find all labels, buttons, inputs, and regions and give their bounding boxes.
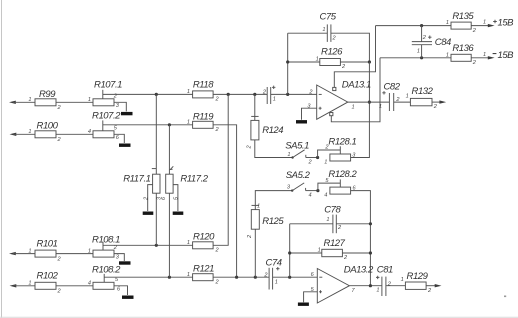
node +15V arrow <box>488 24 495 27</box>
junction SA5.2/R128.2 <box>316 189 319 192</box>
wire C75 to right riser <box>331 33 370 62</box>
ground (R107.1) <box>121 112 133 115</box>
page border left <box>1 0 3 318</box>
node input A arrow <box>9 101 35 104</box>
wire C81 to R129 <box>386 285 406 287</box>
potentiometer R108.2 <box>92 264 121 289</box>
wire DA13.1 pin3 to ground <box>302 108 317 120</box>
node input D arrow <box>10 284 36 287</box>
wire C82 to R132 <box>394 101 411 103</box>
wiper tick R128.2 <box>339 179 341 187</box>
resistor R135 <box>451 11 474 29</box>
svg-text:1: 1 <box>28 97 31 103</box>
junction D'/R125 <box>254 276 257 279</box>
resistor R127 <box>322 238 346 257</box>
wire R117.2 down to net D' <box>168 193 170 277</box>
svg-text:1: 1 <box>324 159 327 165</box>
op-amp DA13.2 <box>317 264 374 303</box>
wire R128.1 wiper tie <box>318 150 341 158</box>
svg-text:R108.1: R108.1 <box>92 235 120 246</box>
resistor R124 <box>251 120 283 139</box>
svg-text:R126: R126 <box>321 46 343 57</box>
wire R117.1 wiper to ground <box>148 185 153 211</box>
ground (R108.1) <box>119 261 131 264</box>
junction C78 right <box>369 222 372 225</box>
wire R136 to -15V arrow <box>471 57 491 59</box>
resistor R118 <box>193 80 215 98</box>
wire net A' down to R117.1 <box>155 94 157 174</box>
node -15V arrow <box>488 56 495 59</box>
svg-text:1: 1 <box>417 48 420 54</box>
svg-text:1: 1 <box>275 280 278 286</box>
wire R120 up to net A' <box>213 94 228 245</box>
capacitor C84 <box>412 26 451 58</box>
wire R126 right <box>340 61 369 63</box>
wire R124 bottom to SA5.1 <box>255 140 293 158</box>
junction output DA13.2 <box>369 284 372 287</box>
svg-text:1: 1 <box>318 248 321 254</box>
capacitor C75 <box>320 12 337 42</box>
junction +15V/C84 <box>420 24 423 27</box>
node input B arrow <box>10 133 36 136</box>
ground (R117.2) <box>173 211 184 214</box>
svg-text:1: 1 <box>322 27 325 33</box>
svg-text:DA13.1: DA13.1 <box>342 80 371 91</box>
svg-text:SA5.2: SA5.2 <box>286 170 311 181</box>
net label +15V <box>493 18 514 29</box>
svg-text:1: 1 <box>273 97 276 103</box>
resistor R136 <box>451 43 474 61</box>
svg-text:R107.2: R107.2 <box>92 111 121 122</box>
wire R99 to R107.1 <box>56 101 93 103</box>
ground (R107.2) <box>119 143 131 146</box>
wire net D' continue to C74 <box>213 276 317 278</box>
ground (DA13.1) <box>296 120 307 123</box>
svg-text:15В: 15В <box>498 50 515 61</box>
junction output DA13.1 <box>368 101 371 104</box>
resistor R119 <box>193 111 215 128</box>
wire -15V rail <box>380 57 451 59</box>
svg-text:C82: C82 <box>384 81 401 92</box>
resistor R125 <box>251 210 284 230</box>
svg-text:1: 1 <box>28 281 31 287</box>
junction A'/R124 <box>253 93 256 96</box>
junction R126 left <box>286 60 289 63</box>
svg-text:DA13.2: DA13.2 <box>344 264 374 275</box>
capacitor C78 <box>324 204 341 233</box>
svg-text:R100: R100 <box>37 120 59 131</box>
op-amp DA13.1 <box>317 80 371 120</box>
svg-text:R128.1: R128.1 <box>328 136 356 147</box>
svg-text:4: 4 <box>88 281 91 287</box>
potentiometer R108.1 <box>92 235 120 258</box>
resistor R126 <box>320 46 343 65</box>
svg-text:R127: R127 <box>324 238 346 249</box>
junction R127 right <box>369 251 372 254</box>
wire net A' (R107.1 wiper to opamp input) <box>103 93 317 95</box>
svg-text:1: 1 <box>406 94 409 100</box>
svg-text:1: 1 <box>187 240 190 246</box>
capacitor C74 <box>266 257 282 289</box>
trimmer R117.2 <box>166 173 209 193</box>
wire R128.1 pin3 up to DA13.1 output <box>351 102 370 157</box>
svg-text:1: 1 <box>316 57 319 63</box>
svg-text:R135: R135 <box>452 11 474 22</box>
wire C78 left <box>290 223 333 225</box>
power pin 4 square of DA13.1 <box>330 113 333 116</box>
svg-text:1: 1 <box>287 152 290 158</box>
svg-text:1: 1 <box>352 105 355 111</box>
capacitor C81 <box>376 265 393 296</box>
wire +15V rail <box>376 25 452 27</box>
svg-text:1: 1 <box>446 20 449 26</box>
svg-text:1: 1 <box>187 89 190 95</box>
wire C75 top left <box>288 32 328 34</box>
wire R124 top connection <box>254 94 256 120</box>
resistor R99 <box>35 89 56 106</box>
wire C78 right <box>336 223 370 225</box>
svg-text:C81: C81 <box>377 265 393 276</box>
wire R128.2 wiper tie <box>318 183 340 191</box>
resistor R120 <box>193 232 216 249</box>
svg-text:4: 4 <box>88 129 91 135</box>
capacitor C73 <box>267 86 275 104</box>
junction R126 right <box>368 60 371 63</box>
page corner speck <box>504 296 506 298</box>
svg-text:1: 1 <box>187 272 190 278</box>
wire R102 to R108.2 <box>56 285 93 287</box>
junction A'/R117.1 <box>155 93 158 96</box>
resistor R132 <box>410 86 433 106</box>
svg-text:R101: R101 <box>37 239 58 250</box>
svg-text:1: 1 <box>401 277 404 283</box>
switch SA5.2 <box>286 170 318 192</box>
ground (DA13.2) <box>298 303 309 306</box>
potentiometer R107.1 <box>93 79 122 106</box>
wire R127 left <box>290 252 322 254</box>
junction C'/R117.1 <box>155 244 158 247</box>
svg-text:R118: R118 <box>193 80 214 91</box>
wire -15V to pin 4 <box>331 58 380 122</box>
wire net B' down to R117.2 <box>168 125 170 174</box>
wire net B' (R107.2 wiper to R119 and down) <box>103 125 237 277</box>
svg-text:1: 1 <box>88 248 91 254</box>
junction D'/R117.2 <box>168 276 171 279</box>
wiper arrow mark R117.2 <box>170 166 173 169</box>
svg-text:R117.2: R117.2 <box>180 173 208 184</box>
wire R108.2 pin6 to ground <box>114 286 128 295</box>
node input C arrow <box>9 252 35 255</box>
wire DA13.2 pin5 to ground <box>304 292 318 302</box>
junction D'/R119 riser <box>235 276 238 279</box>
svg-text:R120: R120 <box>193 232 215 243</box>
resistor R102 <box>35 271 59 290</box>
wire DA13.1 output <box>348 101 390 103</box>
potentiometer R107.2 <box>92 111 121 138</box>
svg-text:1: 1 <box>88 97 91 103</box>
resistor R121 <box>193 263 215 280</box>
svg-text:R125: R125 <box>262 216 284 227</box>
svg-text:1: 1 <box>379 104 382 110</box>
svg-text:R128.2: R128.2 <box>328 169 357 180</box>
wiper mark R117.1 <box>152 168 157 170</box>
junction SA5.1/R128.1 <box>316 156 319 159</box>
svg-text:R136: R136 <box>452 43 474 54</box>
svg-text:C84: C84 <box>435 37 451 48</box>
capacitor C82 <box>382 81 400 111</box>
svg-text:R124: R124 <box>262 125 283 136</box>
trimmer R117.1 <box>123 173 160 193</box>
wire R128.2 pin6 down to DA13.2 output <box>351 191 371 286</box>
wire R107.1 pin3 to ground <box>114 102 126 111</box>
svg-text:1: 1 <box>446 52 449 58</box>
svg-text:1: 1 <box>187 120 190 126</box>
wire SA5.2 left to R125 <box>255 191 292 210</box>
wire R127 right <box>342 252 370 254</box>
svg-text:1: 1 <box>326 217 329 223</box>
svg-text:1: 1 <box>28 248 31 254</box>
svg-text:1: 1 <box>28 129 31 135</box>
trimmer R128.2 <box>328 169 357 194</box>
pin 1 tick of R125 <box>252 204 260 206</box>
wire feedback left riser <box>287 33 289 94</box>
wire R100 to R107.2 <box>56 133 93 135</box>
svg-text:R121: R121 <box>193 263 214 274</box>
svg-text:R117.1: R117.1 <box>123 173 150 184</box>
resistor R100 <box>35 120 59 138</box>
page border bottom <box>0 316 518 318</box>
wire feedback left riser (bottom) <box>289 224 291 277</box>
wire R117.1 down to net C' <box>155 193 157 245</box>
wire R108.1 pin3 to ground <box>114 254 124 261</box>
svg-text:C78: C78 <box>324 204 341 215</box>
svg-text:C75: C75 <box>320 12 337 23</box>
power pin 8 square of DA13.1 <box>333 87 336 90</box>
junction B'/R117.2 <box>168 123 171 126</box>
ground (R117.1) <box>143 211 154 214</box>
wire R101 to R108.1 <box>56 253 93 255</box>
node output 2 arrow <box>426 284 441 287</box>
junction A'/feedback <box>286 93 289 96</box>
svg-text:4: 4 <box>309 193 312 199</box>
wire DA13.2 output <box>349 285 382 287</box>
wire R135 to +15V arrow <box>471 25 491 27</box>
wire R117.2 wiper to ground <box>173 185 178 211</box>
svg-text:1: 1 <box>257 203 260 209</box>
wire net C' (R108.1 wiper to R120) <box>103 244 193 246</box>
junction D'/feedback <box>288 276 291 279</box>
svg-text:R119: R119 <box>193 111 214 122</box>
wire +15V to pin 8 <box>334 26 375 88</box>
svg-text:SA5.1: SA5.1 <box>285 140 309 151</box>
ground (R108.2) <box>122 296 134 299</box>
svg-text:15В: 15В <box>498 18 515 29</box>
svg-text:1: 1 <box>483 52 486 58</box>
wire net D' (R108.2 wiper to R121) <box>104 276 192 278</box>
svg-text:R107.1: R107.1 <box>94 79 122 90</box>
wire feedback right riser to output <box>368 62 370 102</box>
svg-text:R129: R129 <box>407 271 429 282</box>
svg-text:4: 4 <box>324 192 327 198</box>
wire R126 left <box>288 61 320 63</box>
wire R125 bottom to net D' <box>254 229 256 277</box>
resistor R101 <box>35 239 58 258</box>
svg-text:1: 1 <box>376 288 379 294</box>
trimmer R128.1 <box>328 136 356 161</box>
svg-text:R108.2: R108.2 <box>92 264 121 275</box>
junction A'/R120 riser <box>227 93 230 96</box>
svg-text:1: 1 <box>483 20 486 26</box>
svg-text:C74: C74 <box>266 257 282 268</box>
svg-text:R99: R99 <box>39 89 56 100</box>
wiper tick R128.1 <box>339 146 341 154</box>
wire R107.2 pin6 to ground <box>114 134 124 143</box>
net label -15V <box>493 50 515 61</box>
junction -15V/C84 <box>420 56 423 59</box>
svg-text:R102: R102 <box>37 271 59 282</box>
resistor R129 <box>405 271 428 289</box>
node output 1 arrow <box>432 100 446 103</box>
pin 1 tick of R124 <box>251 115 258 117</box>
junction R127 left <box>288 251 291 254</box>
switch SA5.1 <box>285 140 317 158</box>
svg-text:R132: R132 <box>412 86 434 97</box>
